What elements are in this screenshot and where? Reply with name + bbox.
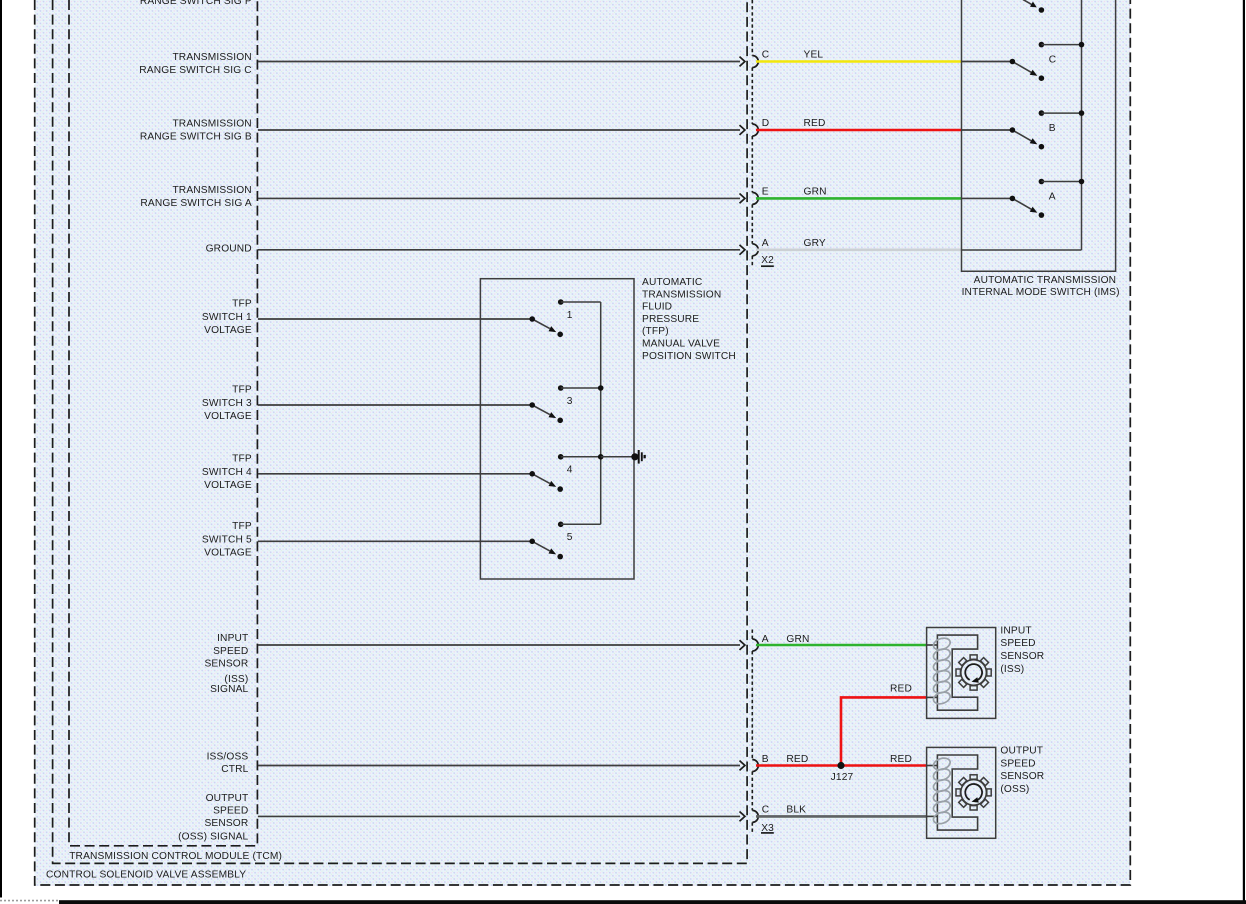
- svg-text:3: 3: [567, 396, 573, 407]
- svg-text:TFP: TFP: [232, 454, 252, 465]
- wire TFP SWITCH 5 VOLTAGE: [258, 540, 532, 542]
- svg-text:B: B: [762, 754, 769, 765]
- svg-text:VOLTAGE: VOLTAGE: [204, 411, 252, 422]
- svg-text:SENSOR: SENSOR: [1000, 771, 1044, 782]
- svg-text:SPEED: SPEED: [1000, 758, 1035, 769]
- wire TFP SWITCH 4 VOLTAGE: [258, 473, 532, 475]
- black wire pin C to OSS: [756, 815, 927, 818]
- TFP switch 5: [558, 522, 564, 528]
- svg-text:VOLTAGE: VOLTAGE: [204, 325, 252, 336]
- dashed box TCM inner label column: [69, 0, 257, 846]
- wire TFP SWITCH 1 VOLTAGE: [258, 318, 532, 320]
- svg-text:TFP: TFP: [232, 385, 252, 396]
- input speed sensor ISS sensor symbol: [927, 628, 996, 719]
- green wire pin A to ISS: [756, 644, 927, 647]
- IMS switch B: [962, 129, 1013, 131]
- svg-text:RED: RED: [890, 754, 912, 765]
- svg-text:RANGE SWITCH SIG P: RANGE SWITCH SIG P: [140, 0, 252, 7]
- svg-text:POSITION SWITCH: POSITION SWITCH: [642, 351, 736, 362]
- svg-text:OUTPUT: OUTPUT: [206, 793, 249, 804]
- wire INPUT SPEED SENSOR (ISS) SIGNAL: [258, 644, 740, 646]
- yellow wire pin C to IMS: [756, 60, 962, 63]
- IMS box: [962, 0, 1116, 271]
- svg-text:SWITCH 3: SWITCH 3: [202, 398, 252, 409]
- svg-text:PRESSURE: PRESSURE: [642, 314, 699, 325]
- svg-text:FLUID: FLUID: [642, 302, 672, 313]
- TFP manual valve position switch box: [480, 279, 634, 579]
- red jumper wire J127 to ISS: [841, 697, 927, 765]
- svg-text:INPUT: INPUT: [217, 633, 248, 644]
- TFP switch 3: [558, 385, 564, 391]
- svg-text:TRANSMISSION: TRANSMISSION: [642, 289, 721, 300]
- dashed box TRANSMISSION CONTROL MODULE (TCM): [53, 0, 748, 863]
- svg-text:RED: RED: [890, 684, 912, 695]
- red wire pin D to IMS: [756, 129, 962, 132]
- svg-text:SPEED: SPEED: [213, 646, 248, 657]
- red wire pin B to J127 and OSS: [756, 764, 927, 767]
- svg-text:CONTROL SOLENOID VALVE ASSEMBL: CONTROL SOLENOID VALVE ASSEMBLY: [46, 870, 246, 881]
- TFP case connection: [601, 456, 634, 458]
- svg-text:RED: RED: [804, 118, 826, 129]
- connector X3 dashed line: [751, 630, 753, 640]
- connector bumps: [752, 56, 758, 68]
- svg-text:1: 1: [567, 310, 573, 321]
- svg-text:GROUND: GROUND: [206, 243, 252, 254]
- TFP switch 1: [558, 299, 564, 305]
- svg-text:INTERNAL MODE SWITCH (IMS): INTERNAL MODE SWITCH (IMS): [962, 287, 1120, 298]
- svg-text:B: B: [1049, 123, 1056, 134]
- svg-text:4: 4: [567, 465, 573, 476]
- output speed sensor OSS sensor symbol: [927, 747, 996, 838]
- svg-text:RANGE SWITCH SIG C: RANGE SWITCH SIG C: [139, 65, 252, 76]
- IMS switch P (clipped): [1023, 0, 1032, 4]
- svg-text:TRANSMISSION CONTROL MODULE (T: TRANSMISSION CONTROL MODULE (TCM): [69, 851, 282, 862]
- left frame line: [0, 0, 2, 898]
- connector X2 dashed line: [751, 0, 753, 56]
- wire TRANSMISSION RANGE SWITCH SIG A: [258, 197, 740, 199]
- svg-text:(TFP): (TFP): [642, 326, 669, 337]
- svg-text:(OSS): (OSS): [1000, 784, 1029, 795]
- wire TRANSMISSION RANGE SWITCH SIG B: [258, 129, 740, 131]
- svg-text:RANGE SWITCH SIG A: RANGE SWITCH SIG A: [140, 198, 251, 209]
- svg-text:C: C: [762, 50, 770, 61]
- svg-text:ISS/OSS: ISS/OSS: [207, 751, 249, 762]
- svg-text:AUTOMATIC: AUTOMATIC: [642, 277, 702, 288]
- svg-text:SPEED: SPEED: [213, 806, 248, 817]
- svg-text:(OSS) SIGNAL: (OSS) SIGNAL: [178, 832, 248, 843]
- gray wire pin A to IMS: [756, 249, 962, 252]
- svg-text:J127: J127: [831, 772, 854, 783]
- svg-text:TRANSMISSION: TRANSMISSION: [172, 118, 251, 129]
- svg-text:VOLTAGE: VOLTAGE: [204, 548, 252, 559]
- svg-text:MANUAL VALVE: MANUAL VALVE: [642, 339, 720, 350]
- svg-text:RED: RED: [786, 754, 808, 765]
- svg-text:C: C: [1049, 55, 1057, 66]
- IMS bus wire: [1081, 0, 1083, 250]
- svg-text:X2: X2: [761, 255, 774, 266]
- svg-text:SWITCH 4: SWITCH 4: [202, 467, 252, 478]
- wire ISS/OSS CTRL: [258, 765, 740, 767]
- TFP bus wire: [600, 302, 602, 524]
- svg-text:5: 5: [567, 532, 573, 543]
- svg-text:SENSOR: SENSOR: [204, 818, 248, 829]
- svg-text:GRN: GRN: [804, 187, 827, 198]
- svg-text:SWITCH 5: SWITCH 5: [202, 535, 252, 546]
- green wire pin E to IMS: [756, 197, 962, 200]
- svg-text:TRANSMISSION: TRANSMISSION: [172, 185, 251, 196]
- svg-text:TFP: TFP: [232, 299, 252, 310]
- bottom gray dotted strip: [0, 900, 59, 902]
- svg-text:INPUT: INPUT: [1000, 625, 1031, 636]
- wire TRANSMISSION RANGE SWITCH SIG C: [258, 61, 740, 63]
- svg-text:CTRL: CTRL: [221, 764, 248, 775]
- bottom black bar: [59, 900, 1246, 904]
- splice J127: [837, 762, 844, 769]
- svg-text:A: A: [762, 238, 769, 249]
- svg-text:GRY: GRY: [804, 238, 826, 249]
- svg-text:SWITCH 1: SWITCH 1: [202, 312, 252, 323]
- svg-text:GRN: GRN: [786, 634, 809, 645]
- svg-text:AUTOMATIC TRANSMISSION: AUTOMATIC TRANSMISSION: [974, 275, 1117, 286]
- IMS switch A: [962, 197, 1013, 199]
- svg-text:A: A: [762, 634, 769, 645]
- svg-text:TFP: TFP: [232, 521, 252, 532]
- TFP switch 4: [558, 454, 564, 460]
- IMS switch C: [962, 61, 1013, 63]
- svg-text:SIGNAL: SIGNAL: [210, 684, 248, 695]
- svg-text:YEL: YEL: [804, 50, 824, 61]
- svg-text:C: C: [762, 805, 770, 816]
- svg-text:OUTPUT: OUTPUT: [1000, 746, 1043, 757]
- svg-text:SPEED: SPEED: [1000, 638, 1035, 649]
- svg-text:BLK: BLK: [786, 805, 806, 816]
- svg-text:VOLTAGE: VOLTAGE: [204, 480, 252, 491]
- svg-text:(ISS): (ISS): [1000, 664, 1024, 675]
- svg-text:RANGE SWITCH SIG B: RANGE SWITCH SIG B: [140, 131, 252, 142]
- right frame line: [1243, 0, 1245, 904]
- wire GROUND: [258, 249, 740, 251]
- svg-text:A: A: [1049, 192, 1056, 203]
- svg-text:SENSOR: SENSOR: [204, 659, 248, 670]
- svg-text:E: E: [762, 187, 769, 198]
- svg-text:SENSOR: SENSOR: [1000, 651, 1044, 662]
- wire TFP SWITCH 3 VOLTAGE: [258, 404, 532, 406]
- svg-text:TRANSMISSION: TRANSMISSION: [172, 52, 251, 63]
- svg-text:D: D: [762, 118, 770, 129]
- IMS ground rail: [962, 249, 1082, 251]
- wire OUTPUT SPEED SENSOR (OSS) SIGNAL: [258, 815, 740, 817]
